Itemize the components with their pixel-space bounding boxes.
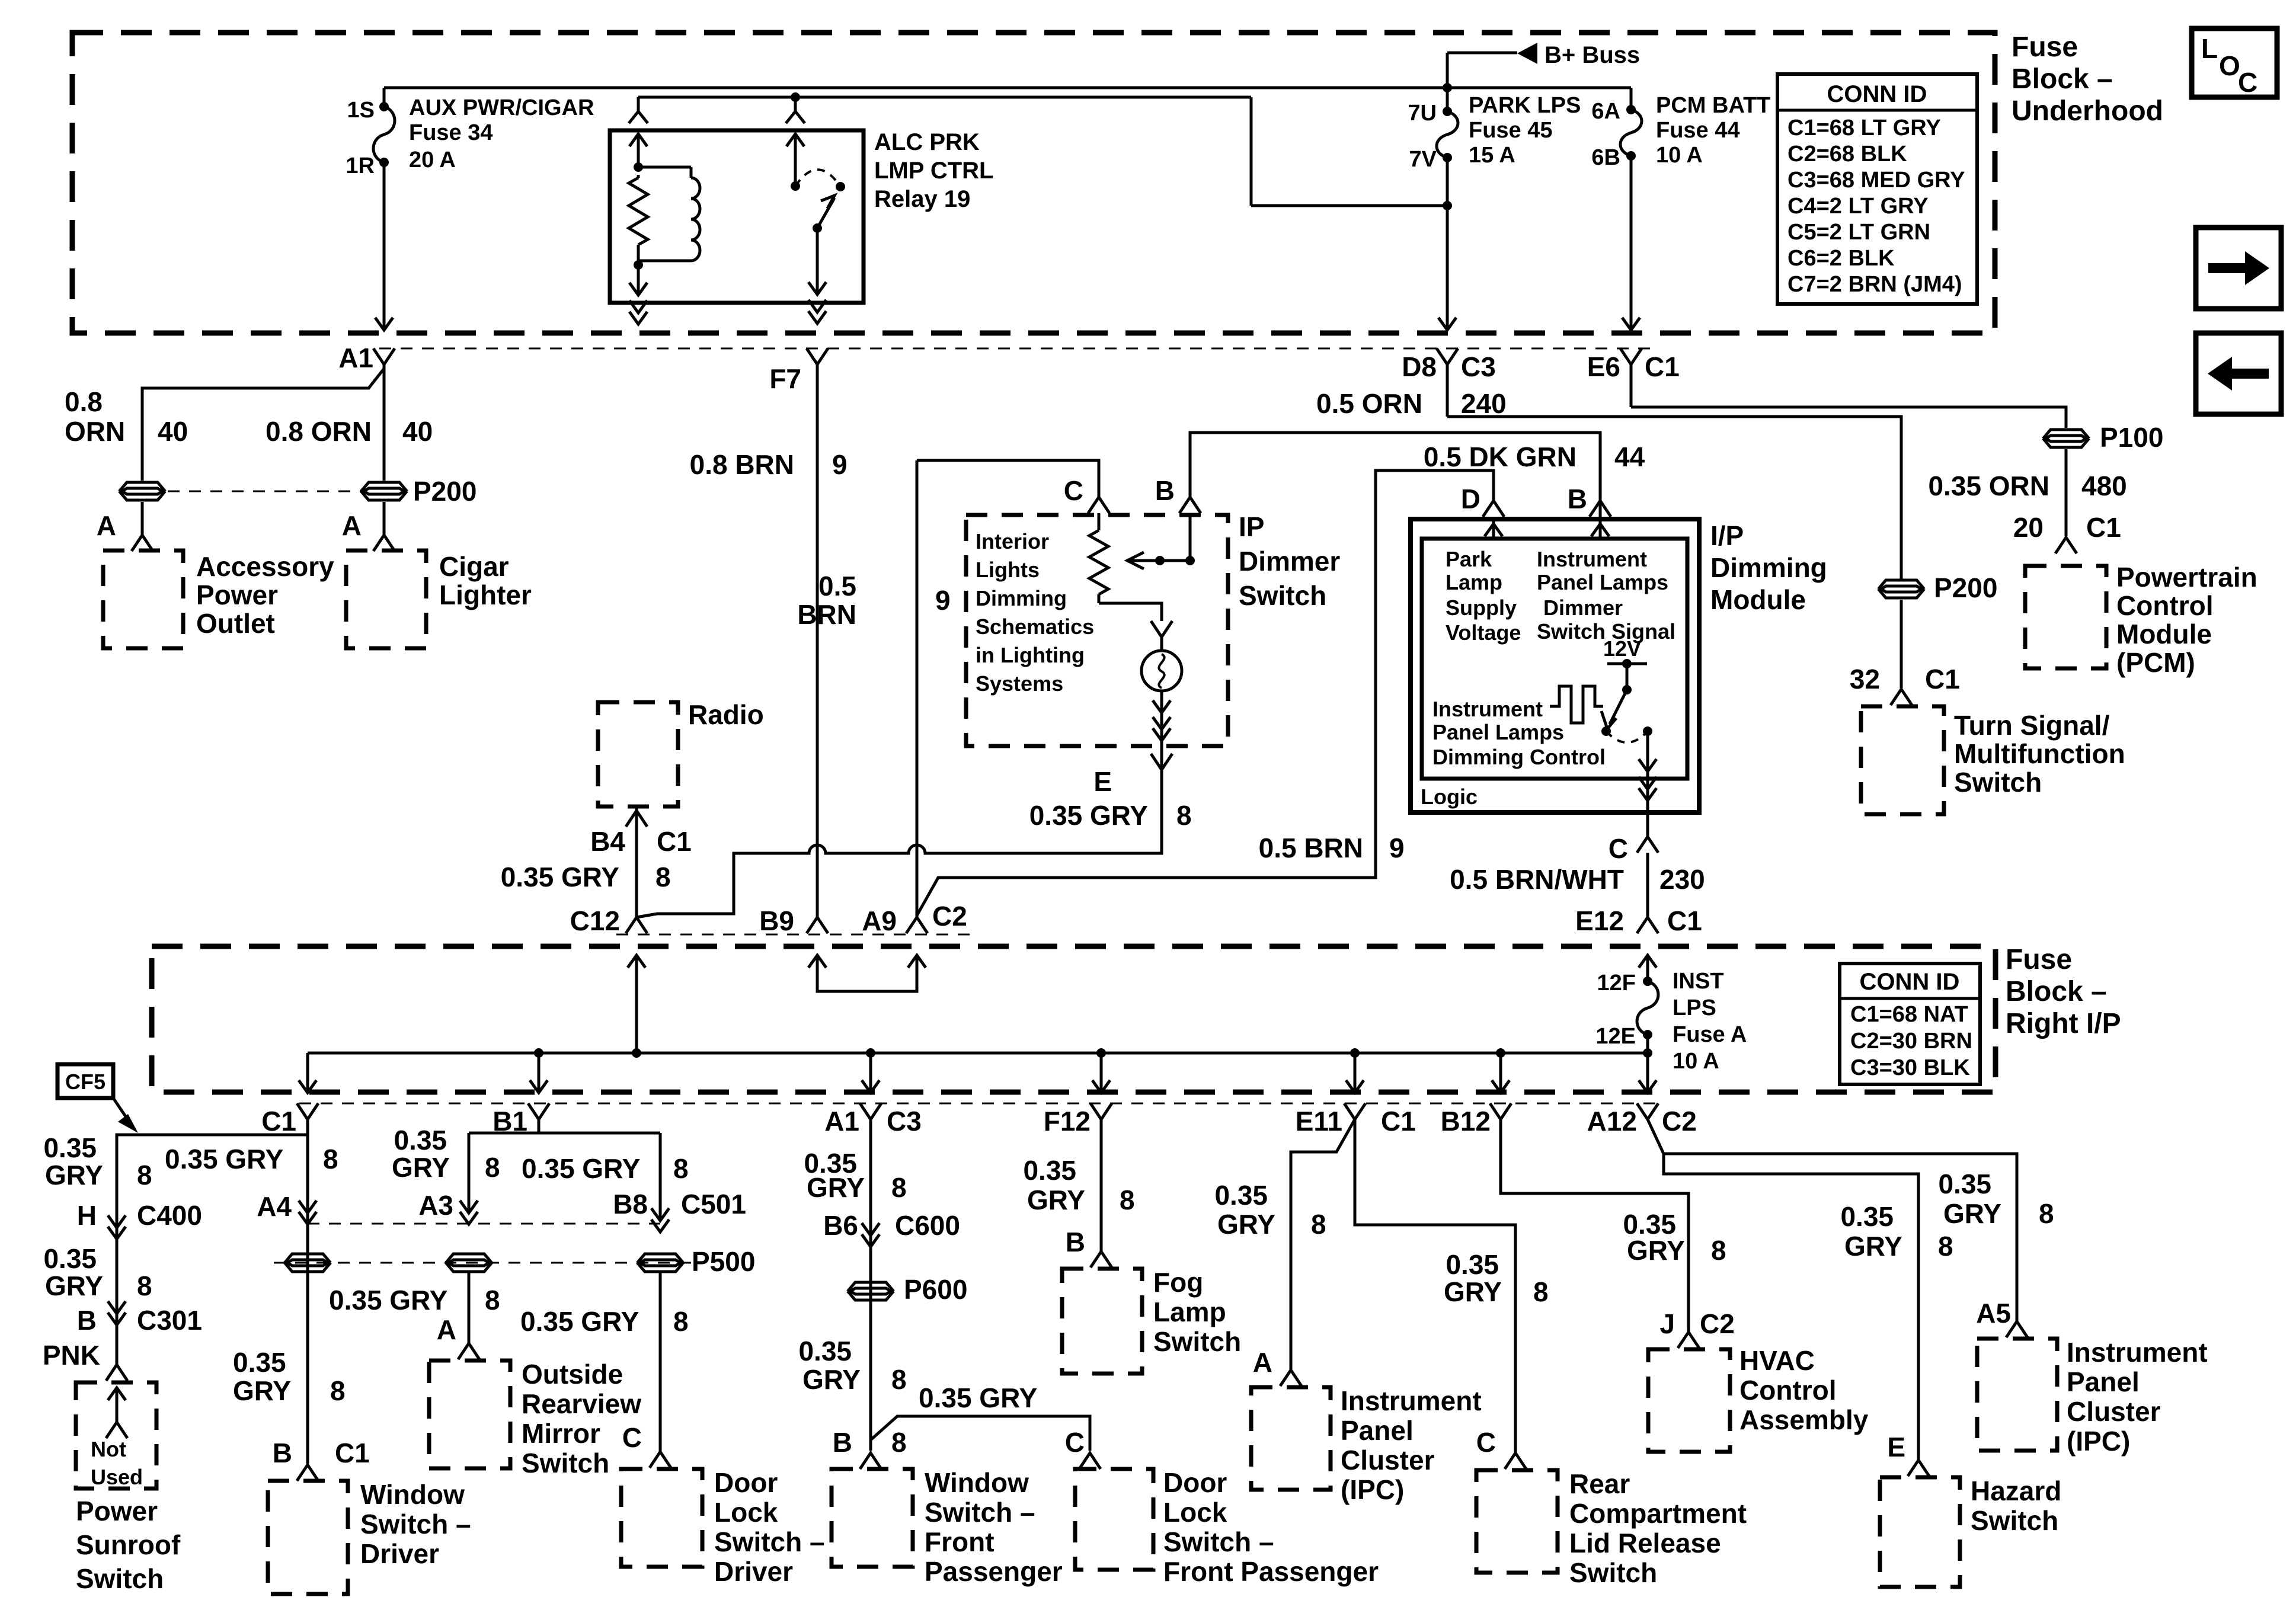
connector C12 fuse block [570,905,647,936]
svg-text:A9: A9 [862,905,897,936]
svg-text:C: C [1065,1427,1085,1458]
svg-text:Powertrain: Powertrain [2116,562,2257,593]
fuse F45 PARK LPS 15A [1408,88,1581,210]
svg-text:8: 8 [1311,1209,1326,1240]
svg-text:E6: E6 [1587,351,1620,382]
connector A1 below fuse 34 [338,162,395,373]
svg-text:0.35: 0.35 [1214,1180,1268,1211]
dimmer wiper arrow [1127,552,1195,569]
svg-text:C3: C3 [887,1106,922,1137]
svg-text:C2: C2 [1700,1308,1735,1339]
pin B module [1568,433,1611,539]
svg-text:E12: E12 [1575,905,1624,936]
fuse INST LPS Fuse A 10A [1595,969,1747,1074]
svg-text:Instrument: Instrument [2067,1337,2208,1368]
bus drop at x=2286 [1346,1048,1364,1093]
pin B window switch front passenger [833,1427,881,1469]
LOC legend box [2192,28,2277,98]
svg-text:8: 8 [330,1375,346,1406]
connector A4 [257,1191,316,1224]
svg-text:7U: 7U [1408,101,1437,126]
svg-text:GRY: GRY [1217,1209,1275,1240]
svg-text:Switch: Switch [522,1448,609,1478]
wire B12 to HVAC [1501,1119,1689,1332]
label 0.35 GRY 8 A3 upper [392,1125,500,1183]
svg-text:12E: 12E [1595,1024,1636,1049]
svg-text:C2: C2 [1662,1106,1697,1137]
module switch arm [1601,690,1627,736]
svg-text:C301: C301 [137,1305,202,1336]
svg-text:GRY: GRY [233,1375,291,1406]
svg-text:Park: Park [1446,547,1492,571]
module output down [1639,731,1657,837]
IP dimmer switch dashed box [966,515,1228,746]
bus drop at x=1858 [1092,1048,1110,1093]
svg-text:C: C [1476,1427,1496,1458]
wire F7 to B9 riser [769,348,828,917]
inline connector P100 [2044,422,2163,453]
svg-text:Switch: Switch [1954,767,2042,798]
svg-text:Switch –: Switch – [1163,1526,1274,1557]
relay coil bottom exit [629,265,647,324]
connector D8 C3 0.5 ORN 240 [1316,348,1507,419]
svg-text:0.35 GRY: 0.35 GRY [522,1153,640,1184]
bus drop at x=1469 [862,1048,880,1093]
svg-text:E: E [1887,1432,1905,1462]
svg-text:8: 8 [891,1172,907,1203]
label power sunroof switch [76,1496,181,1594]
svg-text:Outlet: Outlet [196,608,275,639]
wire PNK [43,1313,117,1371]
svg-text:BRN: BRN [797,599,856,630]
label C2 fuse block [932,901,967,932]
svg-text:Power: Power [76,1496,158,1526]
svg-text:B: B [1066,1227,1085,1257]
svg-text:A: A [437,1314,456,1345]
thin dashed row C400 level [308,1223,660,1225]
IP dimming module logic box [1422,539,1687,779]
svg-text:Switch –: Switch – [925,1497,1035,1528]
label 0.5 BRN 9 A9 [797,571,950,630]
svg-text:8: 8 [1711,1235,1726,1266]
svg-text:B+ Buss: B+ Buss [1544,42,1640,68]
svg-text:8: 8 [1120,1185,1135,1215]
svg-text:GRY: GRY [807,1172,865,1203]
label 0.35 GRY 8 radio wire [1029,800,1192,831]
svg-text:B4: B4 [590,826,625,857]
svg-text:A1: A1 [338,343,373,373]
svg-text:GRY: GRY [1444,1276,1502,1307]
label 0.35 GRY 8 IPC right [1938,1169,2054,1229]
svg-text:8: 8 [137,1270,152,1301]
svg-text:Turn Signal/: Turn Signal/ [1954,710,2110,741]
pin E dimmer switch [1093,754,1172,797]
dimmer illumination lamp [1141,651,1182,691]
wire 0.35 GRY 8 CF5 lower [43,1227,152,1313]
wire 0.35 ORN 480 [1928,449,2126,536]
wire C1 to rear compartment [1355,1119,1515,1453]
label 0.8 ORN 40 right [266,416,433,447]
svg-text:Window: Window [360,1479,465,1510]
svg-text:E11: E11 [1296,1106,1342,1137]
right arrow nav box [2196,228,2281,309]
window switch front passenger box [832,1467,1063,1587]
wire B8 to door lock driver [520,1272,689,1452]
label 0.35 GRY 8 C12 [501,862,671,892]
connector A3 [418,1190,478,1224]
svg-text:A: A [97,510,116,541]
svg-text:Lock: Lock [714,1497,778,1528]
svg-text:C400: C400 [137,1200,202,1231]
inline connector P200 right [1879,572,1997,603]
label 0.35 GRY 8 B8 upper [522,1153,689,1184]
pin E hazard switch [1887,1432,1929,1476]
dimmer rheostat resistor [1089,530,1108,603]
svg-text:Power: Power [196,580,278,610]
pin A mirror switch [437,1314,479,1359]
svg-text:PNK: PNK [43,1340,100,1371]
svg-text:0.35: 0.35 [798,1336,852,1366]
relay switch dashed throw arc [795,169,845,191]
pin C dimmer switch [1064,475,1109,530]
svg-text:0.8: 0.8 [65,386,103,417]
pin 20 C1 PCM [2013,512,2121,553]
label Fuse Block - Underhood [2012,31,2163,127]
left arrow nav box [2196,333,2281,414]
svg-text:8: 8 [891,1364,907,1395]
svg-text:IP: IP [1239,511,1264,542]
svg-text:C1: C1 [657,826,692,857]
svg-text:0.5 BRN: 0.5 BRN [1259,833,1363,863]
svg-text:0.35 GRY: 0.35 GRY [165,1144,283,1174]
connector B12 drop [1441,1103,1511,1137]
svg-text:in Lighting: in Lighting [976,643,1085,667]
svg-text:(IPC): (IPC) [1341,1474,1404,1505]
wire E to C12 with hops [637,769,1162,917]
svg-text:Rearview: Rearview [522,1388,641,1419]
thin dashed row below right IP block [299,1103,1657,1105]
svg-text:F12: F12 [1044,1106,1091,1137]
powertrain control module PCM box [2025,562,2257,678]
svg-text:Schematics: Schematics [976,614,1094,639]
fog lamp switch box [1062,1267,1241,1374]
svg-text:B8: B8 [613,1189,648,1219]
svg-text:0.35 GRY: 0.35 GRY [501,862,619,892]
connector F12 drop [1044,1103,1112,1137]
svg-text:P200: P200 [1934,572,1997,603]
svg-text:9: 9 [1389,833,1405,863]
wire A9 to dimmer C [862,460,1099,936]
wire F12 to fog lamp switch [1023,1119,1134,1251]
svg-text:Switch: Switch [1569,1557,1657,1588]
svg-text:C: C [1609,833,1628,864]
svg-text:10 A: 10 A [1673,1049,1719,1074]
pin C door lock front passenger [1065,1427,1101,1469]
wire relay feed from 7V [638,92,1447,206]
svg-text:P200: P200 [413,476,477,507]
inline connector P600 [849,1274,967,1305]
svg-text:A4: A4 [257,1191,292,1222]
door lock switch driver box [621,1467,825,1587]
wire branch to door lock front passenger [871,1416,1090,1451]
svg-text:Cluster: Cluster [2067,1396,2161,1427]
svg-text:Switch: Switch [76,1563,164,1594]
svg-text:C3: C3 [1461,351,1496,382]
rear compartment lid release switch box [1476,1468,1747,1588]
underhood connector row dashed line [379,348,1659,350]
label relay 19 [874,129,993,212]
svg-text:20: 20 [2013,512,2044,543]
connector B8 C501 [613,1189,746,1232]
svg-text:C1: C1 [1645,351,1680,382]
svg-text:0.35: 0.35 [1023,1155,1076,1186]
svg-text:Instrument: Instrument [1432,697,1543,721]
pin C rear compartment lid release [1476,1427,1526,1469]
label I/P dimming module [1710,520,1827,615]
svg-text:Rear: Rear [1569,1468,1630,1499]
svg-text:Fuse 44: Fuse 44 [1656,118,1740,143]
svg-text:B: B [273,1438,292,1468]
bus drop right end A12 [1639,1053,1657,1093]
connector A12 C2 drop [1587,1103,1697,1137]
svg-text:0.5 ORN: 0.5 ORN [1316,388,1422,419]
power sunroof switch entry connector [106,1365,127,1381]
cigar lighter box [346,550,532,648]
svg-text:Door: Door [714,1467,778,1498]
svg-text:Hazard: Hazard [1971,1475,2061,1506]
svg-text:8: 8 [2039,1198,2054,1229]
svg-text:Fuse 45: Fuse 45 [1469,118,1553,143]
svg-text:8: 8 [1938,1231,1953,1262]
wire A1 C3 down [869,1119,872,1451]
svg-text:E: E [1093,766,1112,797]
svg-text:0.35: 0.35 [43,1132,97,1163]
svg-text:Lamp: Lamp [1153,1297,1226,1327]
svg-text:B: B [833,1427,852,1458]
svg-text:Switch: Switch [1971,1505,2058,1536]
svg-text:10 A: 10 A [1656,143,1703,168]
bus drop at x=909 [530,1048,548,1093]
label 0.5 BRN 9 [1259,833,1405,863]
svg-text:D: D [1461,484,1480,514]
svg-text:O: O [2219,50,2240,81]
svg-text:Driver: Driver [714,1556,793,1587]
svg-text:8: 8 [891,1427,907,1458]
label 0.5 BRN/WHT 230 [1450,864,1705,895]
svg-text:B9: B9 [759,905,794,936]
HVAC control assembly box [1648,1345,1869,1452]
turn signal multifunction switch box [1861,706,2125,814]
svg-text:I/P: I/P [1710,520,1744,551]
svg-text:ORN: ORN [65,416,125,447]
svg-text:0.5 DK GRN: 0.5 DK GRN [1424,441,1576,472]
svg-text:Panel Lamps: Panel Lamps [1537,570,1668,594]
wire A1 to cigar lighter via P200 [362,364,406,551]
svg-text:B: B [1568,484,1587,514]
connector H C400 [77,1200,202,1239]
svg-text:A5: A5 [1976,1298,2011,1329]
svg-text:A3: A3 [418,1190,453,1221]
svg-text:Lamp: Lamp [1446,570,1502,594]
svg-text:CONN ID: CONN ID [1860,969,1960,995]
wire E6 to P100 [1631,407,2066,428]
svg-text:Lights: Lights [976,558,1040,582]
module switch dashed arc [1606,726,1652,742]
svg-text:Front Passenger: Front Passenger [1163,1556,1379,1587]
relay coil winding [638,167,700,261]
svg-text:C1: C1 [1667,905,1702,936]
svg-text:Logic: Logic [1421,785,1478,809]
label 0.8 ORN 40 left [65,386,188,447]
relay switch common pin [786,134,804,191]
svg-text:D8: D8 [1402,351,1437,382]
svg-text:480: 480 [2081,470,2127,501]
svg-text:GRY: GRY [1844,1231,1902,1262]
svg-text:Panel Lamps: Panel Lamps [1432,720,1564,744]
svg-text:Block –: Block – [2006,976,2107,1007]
pin 32 C1 turn signal [1850,600,1960,705]
svg-text:0.5: 0.5 [818,571,856,601]
svg-text:B: B [77,1305,97,1336]
svg-text:Fog: Fog [1153,1267,1203,1298]
svg-text:ALC PRK: ALC PRK [874,129,980,155]
svg-text:Dimming: Dimming [976,586,1067,610]
svg-text:A1: A1 [824,1106,859,1137]
svg-text:Cluster: Cluster [1341,1445,1435,1475]
svg-text:Mirror: Mirror [522,1418,600,1449]
svg-text:F7: F7 [769,363,801,394]
relay coil pin connector [629,97,648,123]
svg-text:0.35 GRY: 0.35 GRY [520,1306,639,1337]
module 12V contact [1607,659,1647,694]
svg-text:C2: C2 [932,901,967,932]
label 12V [1603,636,1641,661]
svg-text:0.35: 0.35 [394,1125,447,1156]
pin C module output [1609,833,1658,917]
svg-text:1R: 1R [346,153,375,178]
CONN ID table right I/P [1840,964,1980,1084]
svg-text:A: A [1253,1347,1272,1378]
lamp output exit [1153,691,1171,769]
relay output down [808,228,826,324]
svg-text:C1: C1 [335,1438,370,1468]
label 0.35 GRY 8 upper P600 [804,1148,906,1203]
wire C2 to hazard switch [1664,1154,1918,1460]
svg-text:6A: 6A [1591,99,1620,124]
wire E11 to IPC [1291,1119,1355,1370]
svg-text:GRY: GRY [45,1270,103,1301]
svg-text:J: J [1659,1308,1675,1339]
fuse block - right I/P dashed border [152,946,1996,1092]
svg-text:Instrument: Instrument [1537,547,1647,571]
svg-text:CF5: CF5 [65,1070,105,1094]
label 0.35 GRY 8 lower P600 [798,1336,906,1395]
svg-text:Control: Control [2116,590,2214,621]
svg-text:Panel: Panel [1341,1415,1414,1446]
svg-text:230: 230 [1659,864,1705,895]
wire C1 split to CF5 and A4 [117,1119,308,1464]
connector E11 C1 drop [1296,1103,1416,1137]
connector E6 C1 [1587,348,1680,407]
fuse block - underhood dashed border [72,33,1995,333]
hazard switch box [1880,1475,2061,1587]
pin B4 C1 radio [590,806,692,917]
svg-text:Module: Module [1710,584,1806,615]
svg-text:C: C [2238,67,2257,98]
svg-text:LMP CTRL: LMP CTRL [874,158,993,184]
svg-text:(PCM): (PCM) [2116,647,2195,678]
svg-text:C3=68 MED GRY: C3=68 MED GRY [1787,168,1965,193]
svg-text:0.35: 0.35 [1840,1201,1894,1232]
svg-text:8: 8 [485,1152,500,1183]
svg-text:Cigar: Cigar [439,551,509,582]
wire E12 to INST LPS fuse [1639,955,1657,981]
wire C2 to module D 0.5 BRN 9 [917,470,1494,916]
svg-text:Radio: Radio [688,699,764,730]
wire top rail from fuse 34 to PCM BATT [384,87,1631,89]
connector B1 drop [493,1103,549,1137]
label 0.35 GRY 8 rear compartment [1444,1249,1549,1307]
svg-text:C3=30 BLK: C3=30 BLK [1850,1055,1970,1080]
relay coil top arrow [629,134,647,172]
svg-text:0.8 BRN: 0.8 BRN [690,449,794,480]
outside rearview mirror switch box [429,1359,641,1478]
svg-text:Used: Used [91,1465,143,1489]
svg-text:Accessory: Accessory [196,551,334,582]
wire A12 to IPC right [1648,1119,2017,1321]
wire 0.5 DK GRN 44 [1190,433,1645,501]
svg-text:A: A [342,510,362,541]
connector B C301 [77,1301,202,1336]
relay 19 box ALC PRK LMP CTRL [610,130,864,303]
svg-text:Lid Release: Lid Release [1569,1528,1721,1558]
svg-text:6B: 6B [1591,145,1620,170]
pin C door lock driver [622,1422,671,1468]
IP dimming module outer box [1411,519,1699,812]
label instrument panel lamps dimmer switch signal [1537,547,1675,644]
svg-text:0.8 ORN: 0.8 ORN [266,416,372,447]
svg-text:B6: B6 [823,1210,858,1241]
svg-text:B12: B12 [1441,1106,1491,1137]
window switch driver box [268,1479,471,1594]
svg-text:Voltage: Voltage [1446,620,1521,645]
inline connector P500 mid [447,1254,491,1272]
svg-text:8: 8 [1176,800,1192,831]
svg-text:12F: 12F [1597,971,1636,996]
svg-text:0.35 ORN: 0.35 ORN [1928,470,2049,501]
svg-text:Multifunction: Multifunction [1954,738,2125,769]
svg-text:C: C [622,1422,642,1453]
svg-text:Outside: Outside [522,1359,623,1390]
wire D8 to P200 right [1447,417,1901,581]
svg-text:0.35 GRY: 0.35 GRY [329,1285,447,1315]
dashed tie P200 connectors [168,491,363,492]
svg-text:GRY: GRY [392,1152,450,1183]
svg-text:GRY: GRY [1027,1185,1085,1215]
svg-text:C7=2 BRN (JM4): C7=2 BRN (JM4) [1787,272,1962,297]
pin A IPC [1253,1347,1302,1386]
svg-text:8: 8 [1533,1276,1549,1307]
svg-text:0.5 BRN/WHT: 0.5 BRN/WHT [1450,864,1624,895]
svg-text:A12: A12 [1587,1106,1637,1137]
CONN ID table underhood [1777,74,1977,304]
svg-text:C5=2 LT GRN: C5=2 LT GRN [1787,220,1930,245]
svg-text:Switch: Switch [1239,580,1326,611]
svg-text:Module: Module [2116,619,2212,649]
svg-text:Fuse 34: Fuse 34 [409,120,493,145]
svg-text:0.35 GRY: 0.35 GRY [1029,800,1148,831]
svg-text:Fuse A: Fuse A [1673,1022,1747,1047]
